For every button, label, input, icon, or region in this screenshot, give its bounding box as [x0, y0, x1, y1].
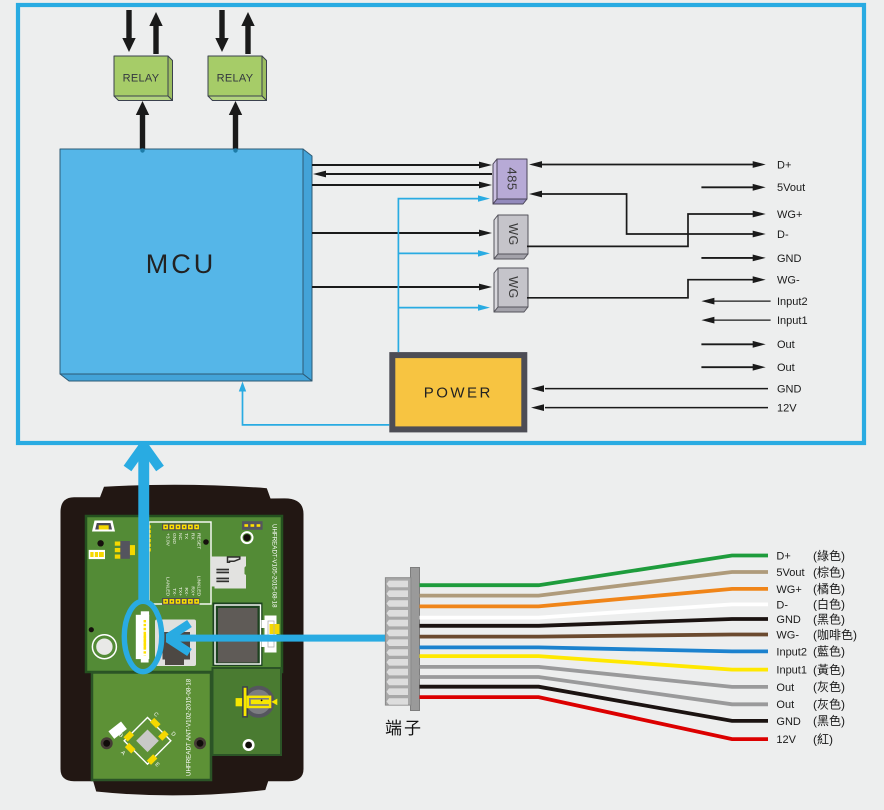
svg-text:RELAY: RELAY	[217, 73, 254, 85]
svg-text:TX-: TX-	[171, 588, 177, 596]
svg-text:12V: 12V	[777, 403, 797, 415]
svg-text:(咖啡色): (咖啡色)	[813, 627, 857, 642]
svg-text:端子: 端子	[385, 719, 423, 738]
svg-text:Out: Out	[777, 339, 795, 351]
svg-text:RX-: RX-	[183, 588, 189, 597]
svg-text:Input1: Input1	[777, 315, 808, 327]
svg-text:(綠色): (綠色)	[813, 549, 845, 563]
svg-text:12V: 12V	[776, 734, 796, 746]
svg-text:485: 485	[505, 167, 520, 190]
svg-text:(橘色): (橘色)	[813, 581, 845, 596]
svg-text:5Vout: 5Vout	[777, 182, 805, 194]
svg-text:Out: Out	[776, 682, 794, 694]
svg-text:LANLED: LANLED	[165, 577, 171, 596]
svg-text:(黑色): (黑色)	[813, 612, 845, 626]
svg-text:RELAY: RELAY	[123, 73, 160, 85]
svg-text:D+: D+	[776, 550, 790, 562]
svg-text:WG+: WG+	[777, 209, 802, 221]
svg-text:(灰色): (灰色)	[813, 698, 845, 712]
svg-text:GND: GND	[776, 716, 801, 728]
svg-text:GND: GND	[171, 533, 177, 544]
svg-text:Input1: Input1	[776, 665, 807, 677]
svg-text:(棕色): (棕色)	[813, 564, 845, 579]
svg-text:LINKLED: LINKLED	[196, 576, 202, 597]
svg-text:TX: TX	[183, 533, 189, 540]
svg-text:Input2: Input2	[777, 296, 808, 308]
svg-text:NC: NC	[177, 533, 183, 541]
svg-text:D+: D+	[777, 159, 791, 171]
svg-text:+3.0V: +3.0V	[165, 533, 171, 547]
svg-text:WG: WG	[506, 223, 520, 246]
svg-text:WG+: WG+	[776, 584, 801, 596]
svg-text:D-: D-	[776, 599, 788, 611]
svg-text:D-: D-	[777, 229, 789, 241]
svg-text:UHFREADT ANT-V102-2015-08-18: UHFREADT ANT-V102-2015-08-18	[186, 678, 193, 776]
svg-text:WG-: WG-	[776, 629, 799, 641]
svg-text:WG: WG	[506, 276, 520, 299]
svg-text:POWER: POWER	[424, 385, 493, 402]
svg-text:(黑色): (黑色)	[813, 714, 845, 728]
svg-text:Input2: Input2	[776, 646, 807, 658]
svg-text:(藍色): (藍色)	[813, 645, 845, 659]
svg-text:TX+: TX+	[177, 587, 183, 596]
svg-text:Out: Out	[777, 362, 795, 374]
svg-text:5Vout: 5Vout	[776, 567, 804, 579]
svg-text:RX: RX	[189, 533, 195, 541]
svg-text:UHFREADT-V105-2015-08-18: UHFREADT-V105-2015-08-18	[271, 524, 278, 608]
svg-text:WG-: WG-	[777, 275, 800, 287]
svg-text:RESET: RESET	[196, 533, 202, 549]
svg-text:GND: GND	[777, 253, 802, 265]
svg-text:Out: Out	[776, 699, 794, 711]
svg-text:(黃色): (黃色)	[813, 663, 845, 677]
svg-text:GND: GND	[777, 384, 802, 396]
svg-text:(紅): (紅)	[813, 732, 833, 746]
svg-text:RX+: RX+	[189, 586, 195, 596]
svg-text:(灰色): (灰色)	[813, 680, 845, 694]
svg-text:MCU: MCU	[146, 249, 217, 279]
svg-text:(白色): (白色)	[813, 597, 845, 612]
svg-text:GND: GND	[776, 614, 801, 626]
